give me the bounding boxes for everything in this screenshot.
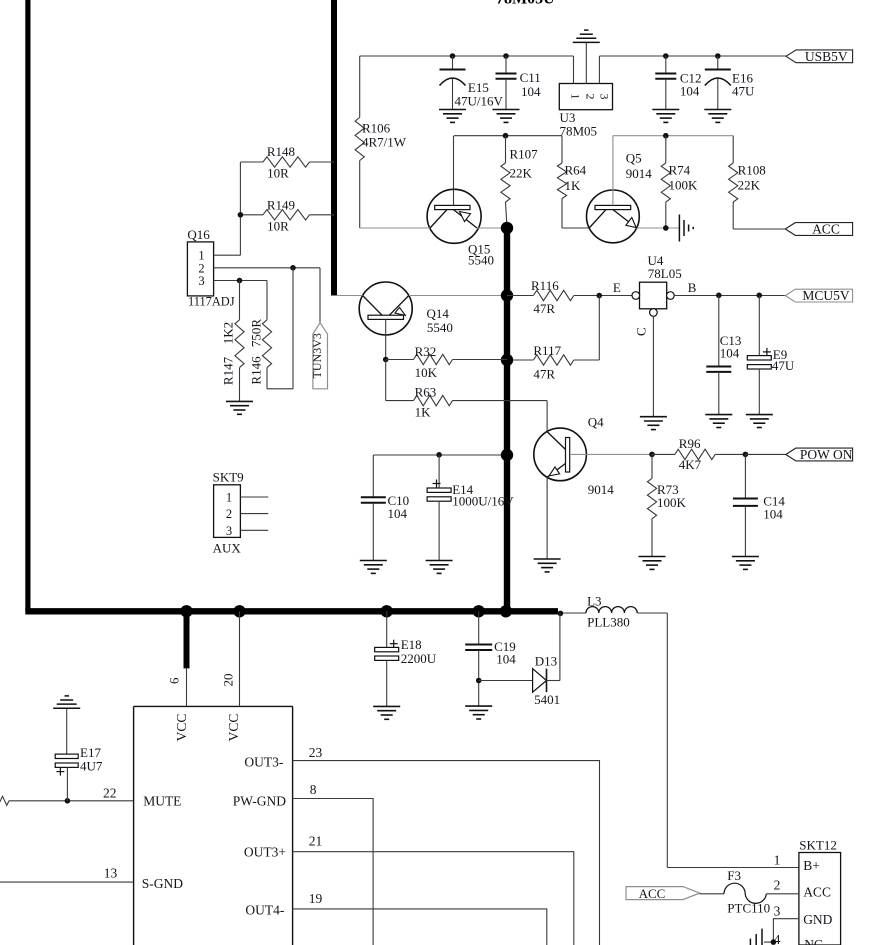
capacitor C10 104 [361,455,409,561]
svg-text:R74: R74 [669,163,691,178]
wire USB5V rail y56 [599,55,786,57]
wire C10 E14 rail [373,454,507,456]
node junction pin20 bus [233,605,245,617]
wire thick power bus vertical mid [331,0,337,296]
svg-text:OUT3-: OUT3- [244,755,283,770]
node junction E16 [715,53,721,59]
wire Q14 emitter to bus [409,295,507,297]
capacitor E15 47U/16V [440,56,504,110]
ground U4 [640,417,667,430]
svg-text:22K: 22K [510,166,533,181]
wire SKT9 pin2 [240,513,268,515]
wire thick ground bus horizontal [25,608,558,614]
svg-text:20: 20 [221,674,236,687]
pin label S-GND [104,866,183,892]
ground E17 top [53,696,80,708]
capacitor E14 1000U/16V [427,455,514,561]
regulator Q16 1117ADJ [187,227,234,309]
ground C11 [493,110,520,123]
wire S-GND [0,881,134,883]
svg-text:2: 2 [226,507,232,521]
node junction Q14 emitter bus [501,289,513,301]
wire Q16 pin2 [214,267,320,269]
svg-text:104: 104 [720,346,740,361]
node junction VCC bus corner [500,605,512,617]
svg-text:47U/16V: 47U/16V [455,94,504,109]
svg-text:R108: R108 [738,163,766,178]
resistor R32 10K [386,344,507,380]
svg-text:22K: 22K [738,178,761,193]
svg-text:Q5: Q5 [626,151,642,166]
ground R73 [639,557,666,570]
svg-text:E18: E18 [401,637,422,652]
wire R106 to Q15 [360,227,430,229]
svg-text:78L05: 78L05 [648,266,682,281]
capacitor E17 4U7 [55,708,103,801]
wire to POW ON [745,453,785,455]
capacitor C13 104 [706,296,741,415]
wire bus to Q14 [336,295,363,297]
ground E18 [373,706,400,719]
pin label 1 [774,853,781,868]
ground U3 pin2 top [573,30,600,42]
resistor R73 100K [647,454,686,556]
node junction Q5 emitter R74 [663,225,669,231]
svg-text:100K: 100K [657,495,687,510]
svg-text:E: E [613,280,621,295]
svg-text:D13: D13 [535,654,557,669]
svg-text:R116: R116 [531,278,559,293]
node junction Q14 base R32 [383,357,389,363]
svg-text:13: 13 [104,866,118,881]
wire thick VCC bus vertical [504,228,510,611]
svg-text:104: 104 [496,652,516,667]
svg-text:21: 21 [309,834,323,849]
wire Q4 collector [570,453,652,455]
capacitor E18 2200U [375,611,437,706]
svg-text:9014: 9014 [588,482,615,497]
wire R64 to Q5 base [562,227,589,229]
ground E15 [439,110,466,123]
capacitor C11 104 [496,56,542,110]
wire L3 to B+ [637,613,799,868]
node junction C13 top [716,293,722,299]
svg-text:104: 104 [680,84,700,99]
pin label VCC 2 [226,714,241,742]
svg-text:MCU5V: MCU5V [802,288,850,303]
svg-text:S-GND: S-GND [142,876,184,891]
ground C14 [732,557,759,570]
svg-text:L3: L3 [587,594,601,609]
node junction R117 bus [501,354,513,366]
wire U3 pin3 [598,56,600,84]
svg-text:1117ADJ: 1117ADJ [188,295,235,309]
svg-text:F3: F3 [727,868,741,883]
wire Q15 to bus [477,227,507,229]
wire R148 R149 vertical [239,162,241,255]
net flag USB5V [786,49,853,64]
svg-text:VCC: VCC [174,714,189,742]
pin label OUT3+ [244,834,322,860]
node junction E9 top [757,293,763,299]
svg-text:22: 22 [103,786,117,801]
node junction rail bus [501,449,513,461]
node junction C11 [503,53,509,59]
pin label 3 [774,904,781,919]
resistor R74 100K [661,136,698,228]
resistor R146 750R [249,281,272,389]
wire U4 ground pin [652,316,654,416]
resistor R147 1K2 [221,281,245,402]
ground C13 [705,415,732,428]
resistor R117 47R [507,296,599,382]
wire pin20 [221,611,240,706]
svg-text:R148: R148 [267,144,295,159]
svg-text:B: B [688,280,697,295]
svg-text:104: 104 [521,84,541,99]
node junction R107 top [503,133,509,139]
svg-text:MUTE: MUTE [143,794,181,809]
node junction pin6 bus [180,605,192,617]
node junction Q15 emitter bus [501,222,513,234]
ground E14 [426,561,453,574]
wire R108 to ACC flag [733,228,785,230]
wire thick power bus vertical left [25,0,30,611]
svg-text:8: 8 [310,782,317,797]
node junction E15 [450,53,456,59]
svg-text:Q16: Q16 [187,227,210,242]
svg-text:Q14: Q14 [427,306,450,321]
svg-text:ACC: ACC [812,222,840,237]
wire Q5 emitter [637,227,679,229]
pin label 4 [774,932,781,945]
svg-text:10R: 10R [267,166,289,181]
wire Q16 pin3 [214,280,267,282]
svg-text:OUT4-: OUT4- [245,903,284,918]
pin label PW-GND [233,782,317,809]
node junction E18 bus [381,605,393,617]
node junction bus end [558,611,564,617]
node junction R73 top [649,452,655,458]
svg-text:R96: R96 [679,436,701,451]
resistor R116 47R [507,278,632,316]
svg-text:USB5V: USB5V [805,49,848,64]
resistor R107 22K [501,136,538,228]
wire pin8 PW-GND [293,799,374,945]
svg-text:NC: NC [804,937,823,945]
svg-text:47U: 47U [732,84,755,99]
wire U3 pin1 [573,56,575,84]
svg-text:R147: R147 [221,356,236,385]
svg-text:750R: 750R [249,319,264,348]
pin label 2 [774,878,781,893]
wire base rail right y136 [613,135,733,137]
svg-text:SKT12: SKT12 [799,838,837,853]
net flag MCU5V [785,288,852,303]
wire MUTE [9,800,134,802]
svg-text:78M05U: 78M05U [496,0,555,8]
wire U4 output B [674,295,786,297]
wire F3 to pin2 [766,893,799,895]
pin label OUT3- [244,745,322,770]
svg-text:PTC110: PTC110 [727,901,770,916]
svg-text:5401: 5401 [534,692,560,707]
svg-text:47R: 47R [533,367,555,382]
capacitor C12 104 [655,56,701,110]
wire thick stub to pin 6 [184,611,190,668]
net flag POW ON [786,447,853,462]
pin label MUTE [103,786,181,809]
svg-text:R146: R146 [249,356,264,385]
svg-text:104: 104 [763,507,783,522]
svg-text:47R: 47R [533,301,555,316]
resistor R149 10R [240,198,334,234]
svg-text:R117: R117 [533,343,561,358]
transistor Q14 5540 [359,282,453,360]
svg-text:R32: R32 [415,344,437,359]
wire base rail left y136 [454,135,562,137]
svg-text:1K: 1K [415,405,432,420]
ground E9 [746,415,773,428]
node junction R74 top [663,133,669,139]
node junction pin2 [290,265,296,271]
svg-text:AUX: AUX [213,541,242,556]
svg-text:4R7/1W: 4R7/1W [362,135,407,150]
node junction pin3 wire [771,939,777,945]
capacitor C14 104 [733,454,785,556]
ground Q5 emitter sideways [679,215,693,242]
node junction R116 R117 [597,293,603,299]
ground C10 [360,561,387,574]
svg-text:TUN3V3: TUN3V3 [310,333,324,378]
svg-text:3: 3 [598,94,612,100]
resistor R148 10R [240,144,334,181]
wire GND pin3 [764,919,799,942]
node junction E17 [65,798,71,804]
ground C19 [465,706,492,719]
svg-text:1: 1 [569,94,583,100]
ground C12 [652,110,679,123]
wire SKT9 pin3 [240,529,268,531]
resistor stub left edge MUTE [0,796,9,805]
regulator U3 78M05 [559,84,612,139]
svg-text:6: 6 [167,677,182,684]
svg-text:2200U: 2200U [401,651,437,666]
ground R147 [226,401,253,414]
node junction R149 [238,212,244,218]
svg-text:PW-GND: PW-GND [233,794,286,809]
svg-text:2: 2 [774,878,781,893]
net flag TUN3V3 [310,268,328,389]
IC power amplifier box [134,706,293,945]
wire Q16 pin1 [214,254,241,256]
title text cut at top edge [496,0,555,8]
pin label OUT4- [245,891,322,918]
svg-text:R107: R107 [510,147,539,162]
svg-text:1000U/16V: 1000U/16V [452,494,514,509]
svg-text:C11: C11 [520,70,541,85]
svg-text:1: 1 [226,491,232,505]
svg-text:POW ON: POW ON [800,447,853,462]
ground E16 [704,110,731,123]
svg-text:1K2: 1K2 [221,322,236,344]
svg-text:SKT9: SKT9 [213,470,244,485]
wire pin23 OUT3- [293,761,600,945]
svg-text:23: 23 [309,745,323,760]
wire pin19 OUT4- [293,909,547,945]
capacitor E16 47U [705,56,755,110]
wire U3 pin2 [585,42,587,83]
wire R146 feedback loop [267,268,293,389]
svg-text:PLL380: PLL380 [587,615,630,630]
fuse F3 PTC110 [724,868,770,916]
wire pin21 OUT3+ [293,852,574,945]
capacitor C19 104 [465,611,516,706]
node junction E14 top [436,452,442,458]
svg-text:OUT3+: OUT3+ [244,845,286,860]
transistor Q5 9014 [587,136,653,243]
wire input rail y56 [360,55,574,57]
connector SKT9 AUX [213,470,244,556]
resistor R96 4K7 [652,436,745,472]
connector SKT12 [799,838,841,945]
svg-text:ACC: ACC [803,885,831,900]
svg-text:ACC: ACC [639,886,666,901]
svg-text:R106: R106 [362,121,391,136]
svg-text:R63: R63 [415,385,437,400]
resistor R106 4R7/1W [355,56,407,228]
svg-text:10K: 10K [415,365,438,380]
svg-text:VCC: VCC [226,714,241,742]
wire pin6 [167,668,187,706]
svg-text:R64: R64 [565,163,587,178]
svg-text:47U: 47U [772,358,795,373]
resistor R63 1K [386,360,547,420]
wire bus to L3 [558,612,586,614]
svg-text:100K: 100K [669,178,699,193]
svg-text:GND: GND [803,912,832,927]
svg-text:10R: 10R [267,219,289,234]
node junction C19 D13 [476,678,482,684]
svg-text:104: 104 [388,506,408,521]
transistor Q4 9014 [534,401,614,559]
svg-text:5540: 5540 [468,253,494,268]
net flag ACC bottom [626,886,700,901]
svg-text:Q4: Q4 [588,415,604,430]
svg-text:19: 19 [309,891,323,906]
ground SKT12 sideways [750,929,762,945]
svg-text:1: 1 [774,853,781,868]
svg-text:3: 3 [774,904,781,919]
wire SKT9 pin1 [240,496,268,498]
inductor L3 PLL380 [586,594,637,630]
svg-text:5540: 5540 [427,320,453,335]
svg-text:4K7: 4K7 [679,457,702,472]
resistor R64 1K [557,136,586,228]
svg-text:1K: 1K [565,178,582,193]
svg-text:B+: B+ [803,858,820,873]
svg-text:9014: 9014 [626,166,653,181]
capacitor E9 47U [747,296,795,415]
node junction C19 bus [473,605,485,617]
svg-text:4U7: 4U7 [80,759,103,774]
wire ACC to F3 [700,893,724,895]
svg-text:C: C [633,327,648,336]
transistor Q15 5540 [427,136,494,268]
node junction C14 top [743,452,749,458]
node junction pin3 R147 [237,278,243,284]
node junction C12 [663,53,669,59]
pin label VCC 1 [174,714,189,742]
svg-text:78M05: 78M05 [560,124,598,139]
regulator U4 78L05 [613,253,697,336]
net flag ACC [785,222,852,237]
resistor R108 22K [729,136,786,229]
svg-text:3: 3 [198,274,204,288]
ground Q4 emitter [534,559,561,572]
svg-text:R149: R149 [267,198,295,213]
svg-text:3: 3 [226,524,232,538]
svg-text:2: 2 [583,94,597,100]
diode D13 5401 [479,613,560,707]
